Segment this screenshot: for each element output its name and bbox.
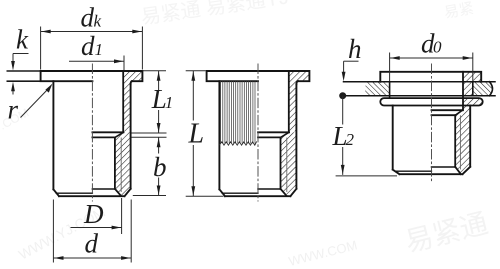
left view bore bottom chamfer diagonal: [115, 189, 121, 196]
plate right section hatch: [473, 82, 493, 96]
right view bottom chamfer edge left half: [396, 170, 432, 172]
hole edge right: [472, 82, 474, 96]
right view thread start step: [432, 114, 456, 116]
right view hatch: shank in hole: [463, 82, 473, 96]
svg-text:2: 2: [346, 130, 355, 149]
right view head outline: [380, 72, 481, 82]
svg-text:d: d: [85, 229, 99, 259]
left view thread bore edge: [114, 137, 116, 188]
plate top surface line: [344, 81, 496, 83]
svg-text:d: d: [81, 31, 95, 61]
svg-text:D: D: [83, 199, 104, 229]
middle view bore step shoulder: [258, 131, 289, 133]
middle view bore d1 edge: [288, 71, 290, 132]
plate left section hatch: [365, 82, 390, 96]
left view thread start step: [92, 136, 115, 138]
left view thread major thin line: [120, 138, 122, 192]
left view flange underside fillet: [131, 81, 132, 84]
middle view body outline: [219, 81, 296, 196]
middle view thread start step: [258, 136, 281, 138]
left view bore bottom chamfer edge: [92, 188, 115, 190]
svg-text:1: 1: [165, 93, 174, 112]
right view hatch: head section: [463, 72, 481, 82]
left view bore d1 edge: [122, 71, 124, 132]
left view centerline: [91, 64, 93, 201]
right view bore step chamfer diagonal: [455, 110, 462, 115]
middle view bore bottom chamfer edge: [258, 188, 281, 190]
right view thread major thin line: [459, 116, 461, 169]
left view body outline: [53, 81, 130, 196]
middle view flange outline: [207, 71, 310, 81]
right view centerline: [431, 64, 433, 182]
left view hatch: step band: [115, 132, 130, 137]
left view flange outline: [41, 71, 143, 81]
svg-text:1: 1: [95, 40, 104, 59]
dimension k: [0, 0, 1, 1]
hole edge left: [389, 82, 391, 98]
dimension L2 with origin dot: [339, 92, 346, 99]
svg-text:h: h: [348, 34, 362, 64]
bulge capsule outline: [380, 98, 482, 105]
dimension d1: [69, 56, 124, 71]
right view bore d1 edge: [462, 72, 464, 110]
svg-text:d: d: [81, 3, 95, 33]
right view hatch: step band: [455, 110, 470, 115]
middle view flange underside fillet: [296, 81, 298, 84]
dimension h: [344, 61, 359, 72]
dimension dk: [41, 27, 143, 70]
left view bore step shoulder: [92, 131, 123, 133]
middle view bore bottom chamfer diagonal: [281, 189, 287, 196]
svg-text:k: k: [16, 25, 29, 55]
right view bore bottom chamfer edge: [432, 166, 456, 168]
dimension b: [132, 137, 167, 195]
dimension L1: [132, 71, 167, 133]
dimension D: [121, 198, 123, 234]
svg-text:k: k: [94, 12, 102, 31]
middle view bottom chamfer edge left half: [222, 192, 258, 194]
svg-text:b: b: [153, 152, 167, 182]
dimension L: [186, 71, 224, 196]
right view hatch: lower wall: [455, 115, 470, 174]
svg-text:r: r: [8, 95, 19, 125]
right view body outline below bulge: [393, 106, 471, 175]
left view hatch: flange+upper wall section: [123, 72, 141, 131]
middle view thread bore edge: [280, 137, 282, 188]
middle view knurl bottom zigzag: [220, 142, 257, 145]
right view bore bottom chamfer diagonal: [455, 167, 461, 174]
middle view hatch: lower wall: [281, 137, 296, 195]
svg-text:L: L: [188, 119, 205, 150]
svg-text:0: 0: [433, 38, 442, 57]
left view bottom chamfer edge left half: [56, 192, 92, 194]
plate right broken-end arc: [490, 82, 493, 96]
right view hatch: bulge section: [463, 98, 483, 105]
middle view bore chamfer diagonal: [281, 132, 289, 137]
left view hatch: lower wall section: [115, 137, 130, 195]
dimension d0: [390, 53, 473, 82]
leader r: [21, 88, 50, 118]
left view bore chamfer diagonal: [115, 132, 123, 137]
middle view knurl striations: [220, 81, 222, 143]
middle view hatch: flange+upper wall: [289, 72, 309, 131]
middle view thread major thin line: [286, 138, 288, 192]
right view thread bore edge: [454, 115, 456, 167]
plate bottom surface line: [343, 95, 495, 97]
right view hatch: wall below bulge: [463, 106, 470, 111]
dimension d: [53, 200, 131, 263]
right view bore step shoulder: [432, 109, 463, 111]
middle view hatch: step band: [281, 132, 296, 137]
middle view centerline: [257, 64, 259, 201]
